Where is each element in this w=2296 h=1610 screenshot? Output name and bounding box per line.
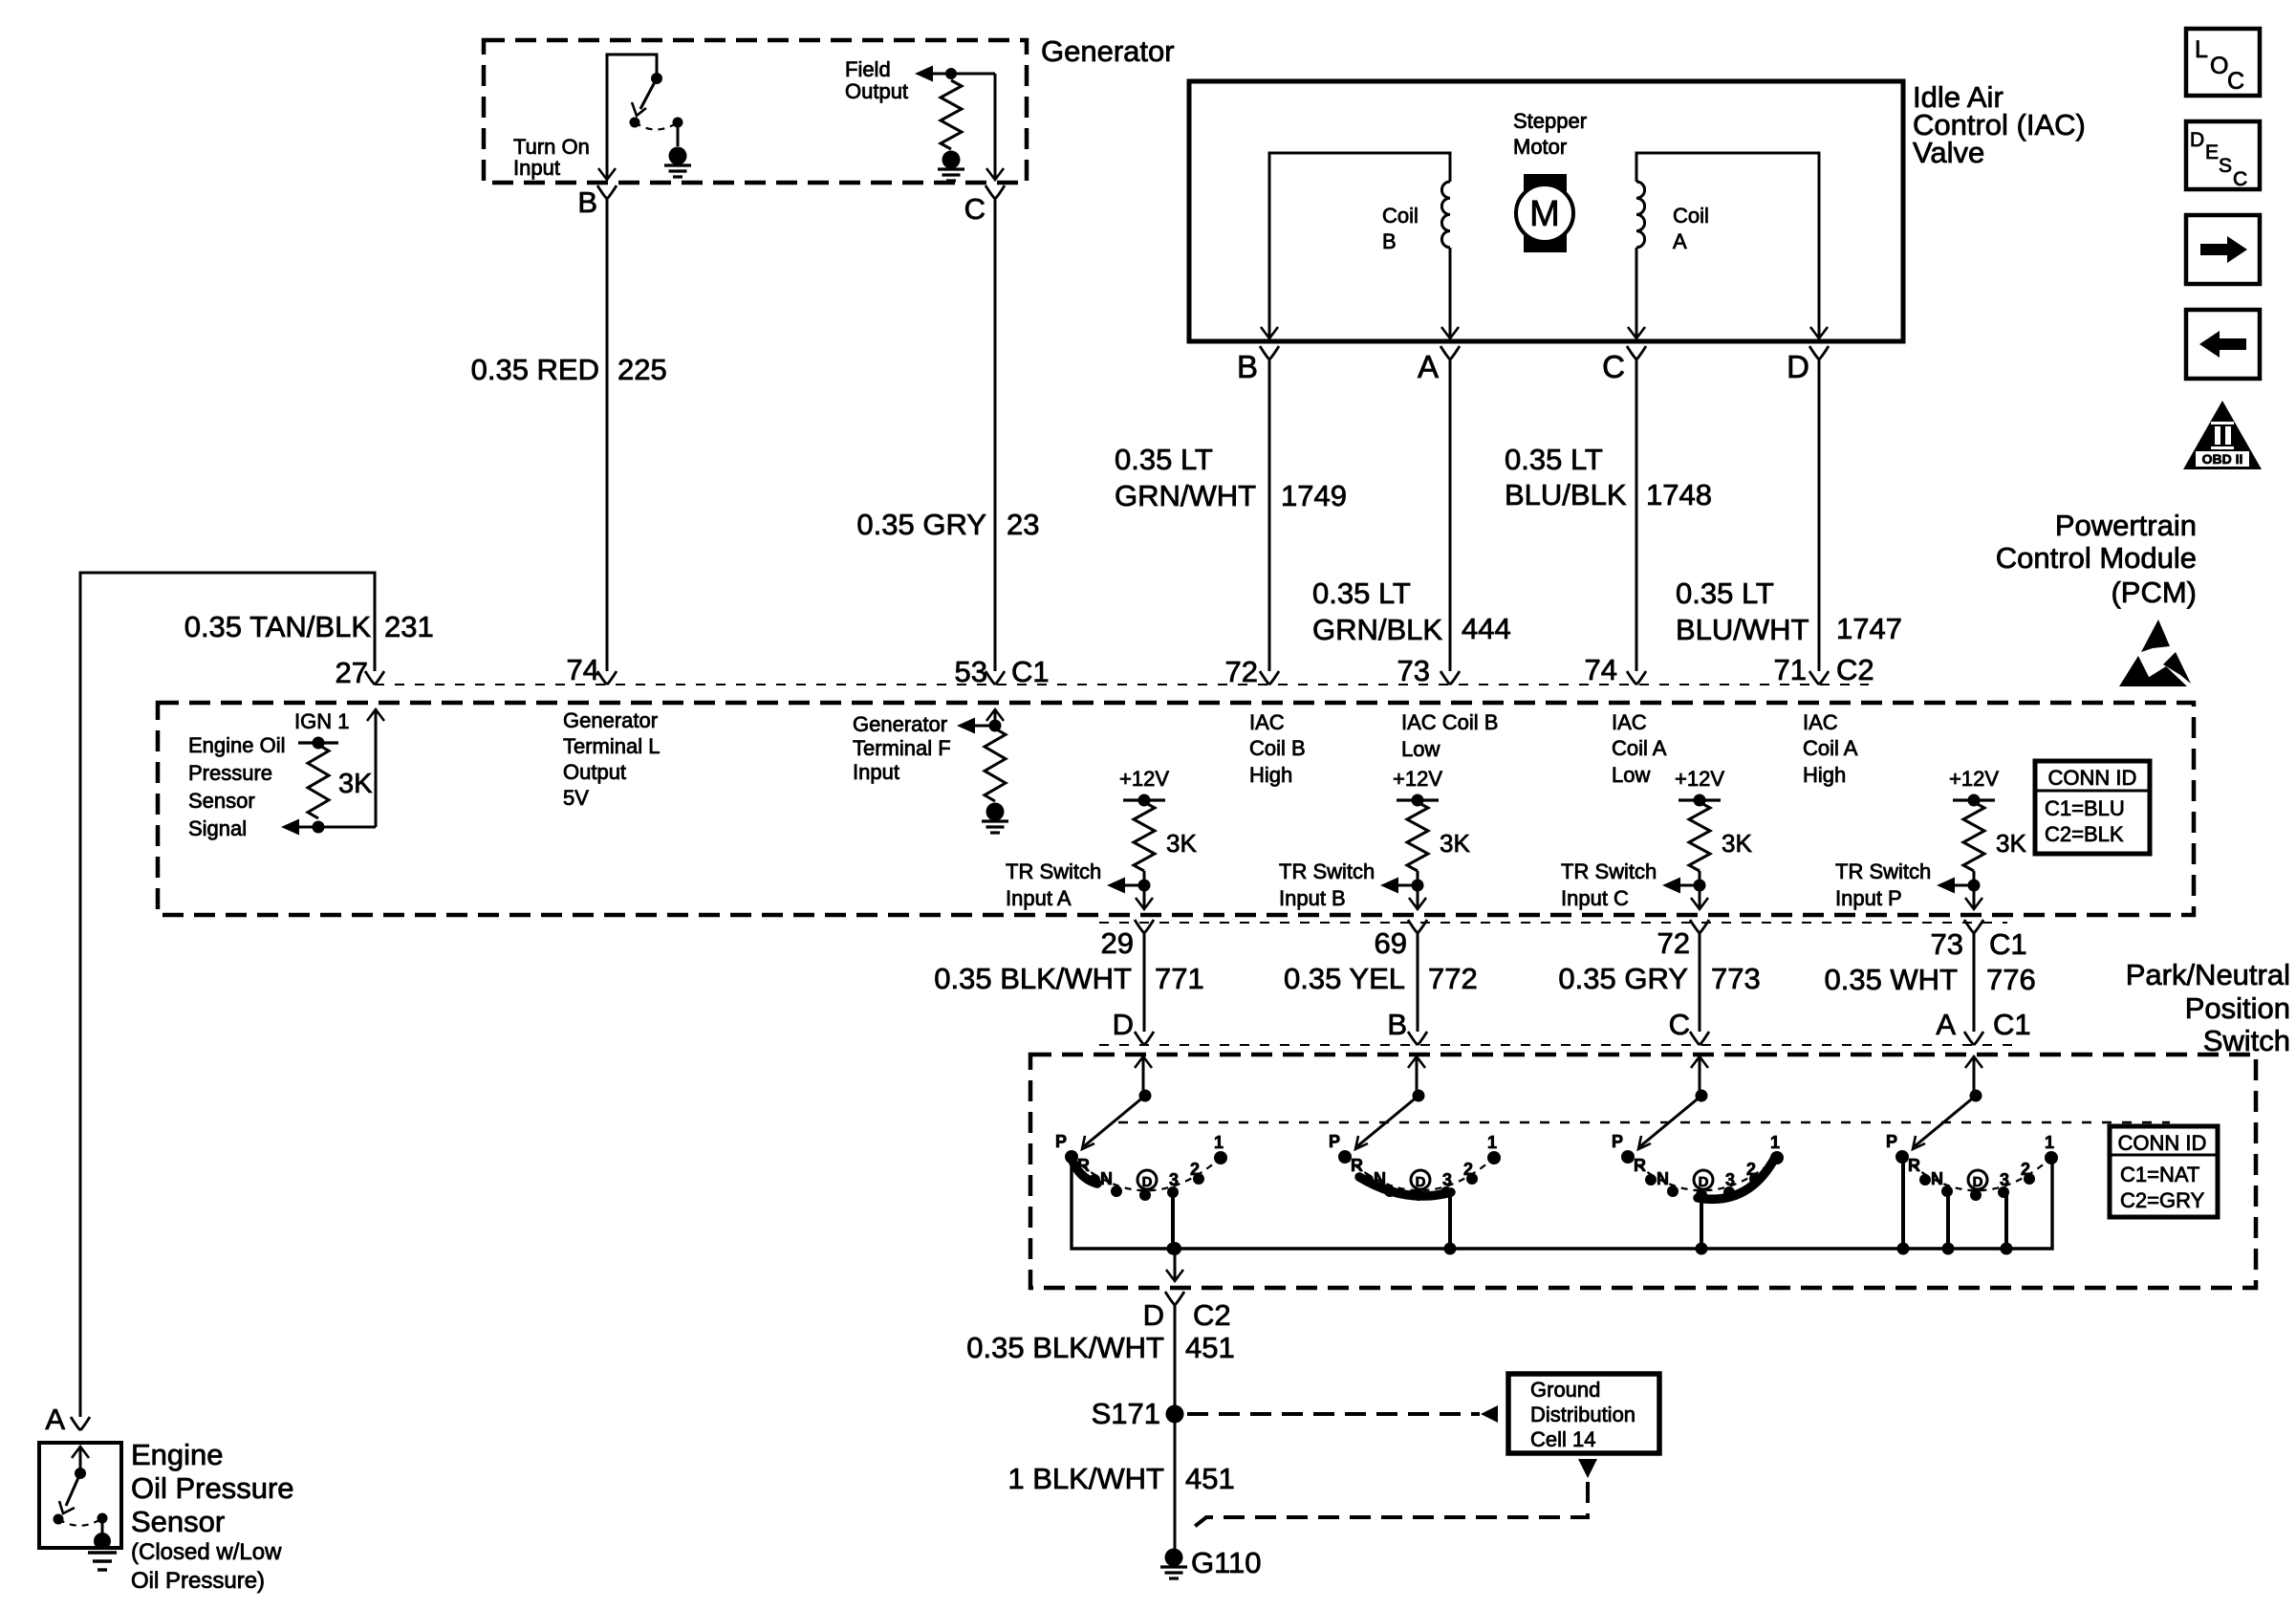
switch 2: dashed contact arc	[1345, 1157, 1494, 1190]
svg-text:Engine: Engine	[131, 1438, 224, 1471]
svg-text:776: 776	[1986, 963, 2036, 996]
node +12V (col P)	[1968, 794, 1981, 807]
svg-text:71: 71	[1774, 653, 1807, 686]
svg-text:Signal: Signal	[188, 816, 247, 840]
svg-text:771: 771	[1155, 962, 1204, 995]
switch contact (open)	[630, 118, 640, 128]
svg-text:Oil Pressure: Oil Pressure	[131, 1471, 294, 1505]
wire: TR input B to PCM edge	[1417, 871, 1419, 908]
svg-text:0.35 LT: 0.35 LT	[1505, 443, 1603, 476]
resistor (terminal F)	[985, 729, 1006, 801]
switch 4: contact drop wire	[1901, 1157, 1905, 1249]
switch 4: contact drop wire	[2004, 1192, 2008, 1249]
connector B at generator	[597, 185, 617, 199]
switch 4: circled D	[1968, 1170, 1987, 1189]
icon arrow right	[2186, 215, 2260, 284]
switch 1: closed contact arc	[1072, 1161, 1097, 1184]
svg-text:D: D	[1787, 349, 1809, 384]
svg-text:0.35 BLK/WHT: 0.35 BLK/WHT	[934, 962, 1132, 995]
pin 73 connector	[1440, 671, 1460, 685]
svg-text:Position: Position	[2185, 991, 2290, 1025]
switch 4: contact P	[1895, 1150, 1909, 1164]
node terminal F	[989, 720, 1002, 732]
coil A winding	[1636, 182, 1645, 248]
wire: coil A to box bottom	[1635, 248, 1638, 338]
pin 73 connector	[1964, 920, 1983, 933]
pin C connector (PNP)	[1690, 1032, 1709, 1045]
svg-text:2: 2	[1463, 1160, 1473, 1179]
svg-text:3K: 3K	[1996, 829, 2026, 858]
ground (EOP sensor)	[94, 1533, 111, 1550]
svg-text:451: 451	[1185, 1331, 1235, 1364]
svg-text:1749: 1749	[1281, 479, 1347, 512]
IGN1 feed bar	[298, 741, 338, 744]
svg-text:R: R	[1908, 1156, 1920, 1175]
svg-text:(Closed w/Low: (Closed w/Low	[131, 1539, 282, 1565]
svg-text:3: 3	[1442, 1170, 1452, 1189]
resistor 3K (EOP pullup)	[308, 745, 329, 818]
generator dashed box	[484, 40, 1027, 183]
svg-text:B: B	[1382, 229, 1397, 253]
PNP common bus	[1072, 1157, 2052, 1249]
switch 4: contacts R N D 3 2 1	[1919, 1174, 1931, 1186]
ground (generator switch)	[669, 147, 687, 165]
wire C inside generator	[994, 74, 997, 178]
svg-text:Input P: Input P	[1835, 886, 1902, 910]
switch 2: wiper pivot	[1413, 1090, 1425, 1102]
svg-text:1747: 1747	[1836, 612, 1902, 645]
switch 1: dashed contact arc	[1072, 1157, 1221, 1190]
svg-text:5V: 5V	[563, 786, 589, 810]
svg-text:Terminal F: Terminal F	[853, 736, 951, 760]
node +12V (col B)	[1412, 794, 1424, 807]
EOP dashed arc	[58, 1518, 102, 1526]
svg-text:2: 2	[1190, 1160, 1200, 1179]
TR switch input A arrow	[1107, 878, 1125, 894]
wire: generator C to PCM pin 53	[994, 199, 997, 671]
svg-text:53: 53	[955, 655, 987, 688]
wires PCM to PNP switch	[1143, 933, 1146, 1032]
svg-text:0.35 YEL: 0.35 YEL	[1284, 962, 1405, 995]
svg-text:444: 444	[1462, 612, 1511, 645]
svg-text:Stepper: Stepper	[1513, 109, 1587, 133]
svg-text:Valve: Valve	[1913, 136, 1984, 169]
pin connector line (PCM top)	[375, 684, 1869, 685]
PNP internal dashed line	[1118, 1121, 2170, 1123]
svg-text:3K: 3K	[1440, 829, 1470, 858]
switch 4: bus junction	[1942, 1243, 1955, 1255]
EOP switch pivot	[75, 1468, 86, 1479]
svg-text:IAC: IAC	[1249, 710, 1285, 734]
splice S171	[1166, 1405, 1184, 1424]
switch 3: closed contact arc	[1698, 1156, 1776, 1199]
switch 3: wiper pivot	[1696, 1090, 1708, 1102]
svg-text:Sensor: Sensor	[188, 789, 255, 813]
svg-text:B: B	[577, 185, 597, 219]
svg-text:(PCM): (PCM)	[2111, 576, 2197, 609]
connector C at IAC	[1627, 346, 1646, 359]
resistor 3K (TR input A)	[1134, 802, 1155, 871]
icon arrow left	[2186, 310, 2260, 379]
arrows at IAC box bottom	[1261, 327, 1278, 338]
TR switch input C arrow	[1662, 878, 1680, 894]
switch 1: wiper pivot	[1139, 1090, 1152, 1102]
svg-text:1: 1	[2045, 1133, 2054, 1152]
svg-text:3K: 3K	[338, 769, 373, 799]
svg-text:Field: Field	[845, 57, 891, 81]
switch 1: contacts R N D 3 2 1	[1089, 1174, 1100, 1186]
svg-text:Input B: Input B	[1279, 886, 1346, 910]
connector A (EOP sensor)	[71, 1417, 90, 1430]
svg-text:L: L	[2195, 36, 2208, 63]
svg-text:Generator: Generator	[1041, 34, 1175, 68]
svg-text:G110: G110	[1191, 1546, 1262, 1579]
node TR input P	[1968, 880, 1981, 892]
svg-text:GRN/WHT: GRN/WHT	[1115, 479, 1256, 512]
svg-text:72: 72	[1657, 926, 1690, 960]
icon DESC	[2186, 121, 2260, 189]
svg-text:73: 73	[1931, 927, 1963, 961]
svg-text:3: 3	[1725, 1170, 1735, 1189]
svg-text:3: 3	[1169, 1170, 1179, 1189]
svg-text:1: 1	[1487, 1133, 1497, 1152]
svg-text:1: 1	[1770, 1133, 1780, 1152]
+12V bar (col B)	[1397, 798, 1439, 801]
pin 71 connector	[1809, 671, 1829, 685]
EOP switch arrow up	[72, 1447, 89, 1458]
svg-text:C2=BLK: C2=BLK	[2045, 822, 2124, 846]
node TR input C	[1694, 880, 1706, 892]
svg-text:B: B	[1387, 1008, 1407, 1041]
switch 1: contact drop wire	[1171, 1192, 1175, 1249]
svg-text:OBD II: OBD II	[2202, 451, 2243, 467]
pin 74 connector	[597, 671, 617, 685]
wire: TR input A to PCM edge	[1143, 871, 1146, 908]
wire to EOP ground	[101, 1518, 104, 1535]
CONN ID box (PCM)	[2035, 761, 2150, 854]
svg-text:69: 69	[1375, 926, 1407, 960]
coil B loop wiring	[1269, 153, 1450, 338]
engine oil pressure sensor box	[39, 1443, 121, 1548]
svg-text:C1: C1	[1993, 1008, 2031, 1041]
wire 1747 (IAC D to PCM 71)	[1818, 359, 1821, 671]
ground G110	[1165, 1549, 1183, 1567]
svg-text:1: 1	[1214, 1133, 1224, 1152]
svg-text:231: 231	[384, 610, 434, 643]
svg-text:Oil Pressure): Oil Pressure)	[131, 1568, 265, 1594]
wire: coil B to box bottom	[1449, 248, 1452, 338]
svg-text:D: D	[1142, 1174, 1153, 1190]
svg-text:Ground: Ground	[1530, 1378, 1600, 1402]
pin D connector (PNP)	[1135, 1032, 1154, 1045]
coil B winding	[1441, 182, 1450, 248]
svg-text:Output: Output	[845, 79, 908, 103]
+12V bar (col P)	[1953, 798, 1995, 801]
svg-text:Cell 14: Cell 14	[1530, 1427, 1595, 1451]
terminal F input arrow	[957, 718, 975, 734]
svg-text:P: P	[1612, 1132, 1623, 1151]
bus junction to output	[1168, 1242, 1181, 1255]
arrow into box edge - wire B	[598, 168, 616, 180]
svg-text:451: 451	[1185, 1462, 1235, 1495]
ground (terminal F)	[986, 803, 1005, 821]
svg-text:CONN ID: CONN ID	[2048, 766, 2137, 790]
dashed return path from ground distribution box	[1578, 1459, 1597, 1478]
svg-text:29: 29	[1101, 926, 1134, 960]
svg-text:+12V: +12V	[1949, 767, 1999, 791]
EOP switch arm	[66, 1473, 80, 1506]
pin 69 connector	[1408, 920, 1427, 933]
node IGN1	[313, 737, 325, 750]
svg-text:D: D	[1113, 1008, 1134, 1041]
switch 3: contacts R N D 3 2 1	[1645, 1174, 1657, 1186]
switch 1: wire from pin	[1135, 1056, 1152, 1068]
switch 3: wire from pin	[1691, 1056, 1708, 1068]
svg-text:TR Switch: TR Switch	[1279, 859, 1375, 883]
connector D at IAC	[1809, 346, 1829, 359]
signal line with arrow	[281, 819, 299, 836]
svg-text:N: N	[1657, 1169, 1669, 1188]
svg-text:C1: C1	[1989, 927, 2027, 961]
svg-text:S171: S171	[1092, 1397, 1160, 1430]
switch 3: circled D	[1694, 1170, 1713, 1189]
svg-text:0.35 TAN/BLK: 0.35 TAN/BLK	[184, 610, 372, 643]
svg-text:D: D	[1973, 1174, 1983, 1190]
svg-text:C: C	[964, 192, 986, 226]
+12V bar (col C)	[1679, 798, 1721, 801]
svg-text:Sensor: Sensor	[131, 1505, 225, 1538]
svg-text:Input A: Input A	[1006, 886, 1072, 910]
switch 4: bus junction	[2001, 1243, 2013, 1255]
svg-text:0.35 BLK/WHT: 0.35 BLK/WHT	[966, 1331, 1164, 1364]
svg-text:A: A	[1418, 349, 1439, 384]
svg-text:High: High	[1249, 763, 1292, 787]
svg-text:IAC: IAC	[1803, 710, 1838, 734]
svg-text:TR Switch: TR Switch	[1835, 859, 1931, 883]
pin A connector (PNP)	[1964, 1032, 1983, 1045]
switch 3: bus junction	[1696, 1243, 1708, 1255]
svg-text:Input: Input	[513, 156, 560, 180]
svg-text:Coil B: Coil B	[1249, 736, 1306, 760]
svg-text:C2: C2	[1193, 1298, 1231, 1332]
svg-text:2: 2	[2021, 1160, 2030, 1179]
svg-text:0.35 LT: 0.35 LT	[1115, 443, 1213, 476]
wire: pin 53 into PCM	[994, 711, 997, 729]
switch 2: bus junction	[1444, 1243, 1457, 1255]
switch 4: wiper pivot	[1970, 1090, 1982, 1102]
svg-text:C: C	[1602, 349, 1625, 384]
svg-text:1 BLK/WHT: 1 BLK/WHT	[1007, 1462, 1164, 1495]
svg-text:IAC: IAC	[1612, 710, 1647, 734]
TR switch input P arrow	[1937, 878, 1955, 894]
wire: TR input C to PCM edge	[1699, 871, 1701, 908]
svg-text:Terminal L: Terminal L	[563, 734, 660, 758]
svg-text:+12V: +12V	[1393, 767, 1442, 791]
svg-text:CONN ID: CONN ID	[2118, 1131, 2207, 1155]
svg-text:TR Switch: TR Switch	[1561, 859, 1657, 883]
icon LOC	[2186, 29, 2260, 96]
svg-text:P: P	[1886, 1132, 1897, 1151]
svg-text:27: 27	[336, 656, 368, 689]
svg-text:BLU/WHT: BLU/WHT	[1676, 613, 1809, 646]
wire 451 to ground	[1174, 1305, 1177, 1552]
svg-text:R: R	[1351, 1156, 1363, 1175]
TR switch input B arrow	[1380, 878, 1398, 894]
resistor 3K (TR input C)	[1689, 802, 1710, 871]
IAC valve box	[1189, 81, 1903, 341]
svg-text:C1=NAT: C1=NAT	[2120, 1163, 2199, 1186]
node +12V (col A)	[1138, 794, 1151, 807]
svg-text:74: 74	[1585, 653, 1617, 686]
connector D C2 (PNP bottom)	[1165, 1292, 1184, 1305]
svg-text:+12V: +12V	[1675, 767, 1724, 791]
switch 2: circled D	[1411, 1170, 1430, 1189]
connector C at generator	[986, 185, 1005, 199]
svg-text:Control Module: Control Module	[1996, 541, 2197, 575]
resistor 3K (TR input P)	[1963, 802, 1984, 871]
PCM dashed box	[158, 703, 2194, 915]
icon OBD II triangle	[2183, 401, 2262, 469]
svg-text:225: 225	[617, 353, 667, 386]
svg-text:IAC Coil B: IAC Coil B	[1401, 710, 1498, 734]
switch 4: contact drop wire	[1946, 1191, 1950, 1249]
svg-text:Output: Output	[563, 760, 626, 784]
svg-text:Park/Neutral: Park/Neutral	[2126, 958, 2290, 991]
pin 53 connector	[986, 671, 1005, 685]
svg-text:0.35 GRY: 0.35 GRY	[856, 508, 986, 541]
+12V bar (col A)	[1123, 798, 1165, 801]
wire 444 (IAC A to PCM 73)	[1449, 359, 1452, 671]
svg-text:A: A	[45, 1403, 65, 1436]
svg-text:Generator: Generator	[563, 708, 658, 732]
dashed reference to ground distribution	[1187, 1412, 1480, 1416]
node: field junction	[945, 68, 957, 79]
svg-text:Generator: Generator	[853, 712, 947, 736]
svg-text:P: P	[1055, 1132, 1067, 1151]
arrow into box edge - wire C	[986, 168, 1004, 180]
switch 1: circled D	[1137, 1170, 1157, 1189]
svg-text:R: R	[1634, 1156, 1646, 1175]
wire: signal to pin 27	[375, 711, 378, 827]
wire: TR input P to PCM edge	[1973, 871, 1976, 908]
svg-text:772: 772	[1428, 962, 1478, 995]
svg-text:1748: 1748	[1646, 478, 1712, 511]
svg-text:0.35 WHT: 0.35 WHT	[1824, 963, 1958, 996]
switch 3: wiper arm	[1640, 1096, 1701, 1146]
svg-text:3K: 3K	[1166, 829, 1197, 858]
svg-text:74: 74	[567, 653, 599, 686]
ground (generator field)	[942, 151, 961, 169]
wire: pin 27 branch top-left	[80, 573, 375, 1417]
wire 1748 (IAC C to PCM 74)	[1635, 359, 1638, 671]
ground distribution cell 14 box	[1508, 1374, 1659, 1453]
wire: generator turn-on branch	[607, 54, 657, 178]
svg-text:Input: Input	[853, 760, 899, 784]
wire: contact to ground	[677, 122, 680, 146]
pin 72 connector	[1260, 671, 1279, 685]
svg-text:0.35 LT: 0.35 LT	[1676, 577, 1774, 610]
wire: bus to D C2 pin	[1174, 1249, 1177, 1279]
svg-text:N: N	[1100, 1169, 1113, 1188]
svg-text:C1=BLU: C1=BLU	[2045, 796, 2125, 820]
svg-text:Coil A: Coil A	[1612, 736, 1667, 760]
svg-text:Coil: Coil	[1382, 204, 1419, 228]
svg-text:E: E	[2205, 141, 2219, 163]
switch 2: wiper arm	[1357, 1096, 1419, 1146]
switch 3: dashed contact arc	[1628, 1157, 1777, 1190]
svg-text:Low: Low	[1612, 763, 1650, 787]
svg-text:B: B	[1237, 349, 1258, 384]
svg-text:D: D	[1416, 1174, 1426, 1190]
svg-text:P: P	[1329, 1132, 1340, 1151]
svg-text:C: C	[1669, 1008, 1690, 1041]
node +12V (col C)	[1694, 794, 1706, 807]
svg-text:C: C	[2227, 68, 2244, 95]
svg-text:Powertrain: Powertrain	[2055, 509, 2197, 542]
svg-text:72: 72	[1225, 655, 1258, 688]
svg-text:+12V: +12V	[1119, 767, 1169, 791]
switch 2: closed contact arc	[1359, 1177, 1451, 1196]
EOP contacts	[54, 1514, 64, 1525]
svg-text:IGN 1: IGN 1	[294, 709, 349, 733]
svg-text:S: S	[2219, 155, 2232, 177]
svg-text:3: 3	[2000, 1170, 2009, 1189]
coil A loop wiring	[1636, 153, 1819, 338]
svg-text:TR Switch: TR Switch	[1006, 859, 1101, 883]
stepper motor M	[1524, 174, 1567, 252]
switch 2: contact drop wire	[1448, 1192, 1452, 1249]
pin connector line (PNP top)	[1099, 1044, 2017, 1046]
pin 74 connector (C2)	[1627, 671, 1646, 685]
svg-text:Input C: Input C	[1561, 886, 1629, 910]
CONN ID box (PNP)	[2110, 1126, 2218, 1217]
connector B at IAC	[1260, 346, 1279, 359]
connector A at IAC	[1440, 346, 1460, 359]
switch 2: contacts R N D 3 2 1	[1362, 1174, 1374, 1186]
svg-text:GRN/BLK: GRN/BLK	[1312, 613, 1442, 646]
switch 4: dashed contact arc	[1902, 1157, 2051, 1190]
node TR input B	[1412, 880, 1424, 892]
switch 4: wire from pin	[1965, 1056, 1982, 1068]
pin B connector (PNP)	[1408, 1032, 1427, 1045]
svg-text:0.35 LT: 0.35 LT	[1312, 577, 1411, 610]
svg-text:C2=GRY: C2=GRY	[2120, 1188, 2205, 1212]
switch 4: bus junction	[1897, 1243, 1910, 1255]
svg-text:N: N	[1931, 1169, 1943, 1188]
svg-text:3K: 3K	[1722, 829, 1752, 858]
svg-text:C1: C1	[1011, 655, 1050, 688]
svg-text:2: 2	[1746, 1160, 1756, 1179]
switch 4: wiper arm	[1915, 1096, 1976, 1146]
switch 2: contact P	[1338, 1150, 1352, 1164]
svg-text:D: D	[1143, 1298, 1164, 1332]
svg-text:M: M	[1529, 194, 1560, 234]
node signal	[313, 821, 325, 834]
svg-text:D: D	[2190, 129, 2204, 151]
svg-text:Engine Oil: Engine Oil	[188, 733, 286, 757]
svg-text:O: O	[2210, 53, 2228, 79]
svg-text:Motor: Motor	[1513, 135, 1567, 159]
svg-text:D: D	[1699, 1174, 1709, 1190]
park/neutral position switch dashed box	[1030, 1055, 2256, 1288]
svg-text:C: C	[2233, 168, 2247, 190]
switch 3: contact P	[1621, 1150, 1635, 1164]
svg-text:Coil A: Coil A	[1803, 736, 1858, 760]
svg-text:A: A	[1936, 1008, 1956, 1041]
svg-text:Distribution: Distribution	[1530, 1403, 1635, 1426]
svg-text:BLU/BLK: BLU/BLK	[1505, 478, 1627, 511]
svg-text:Low: Low	[1401, 737, 1440, 761]
